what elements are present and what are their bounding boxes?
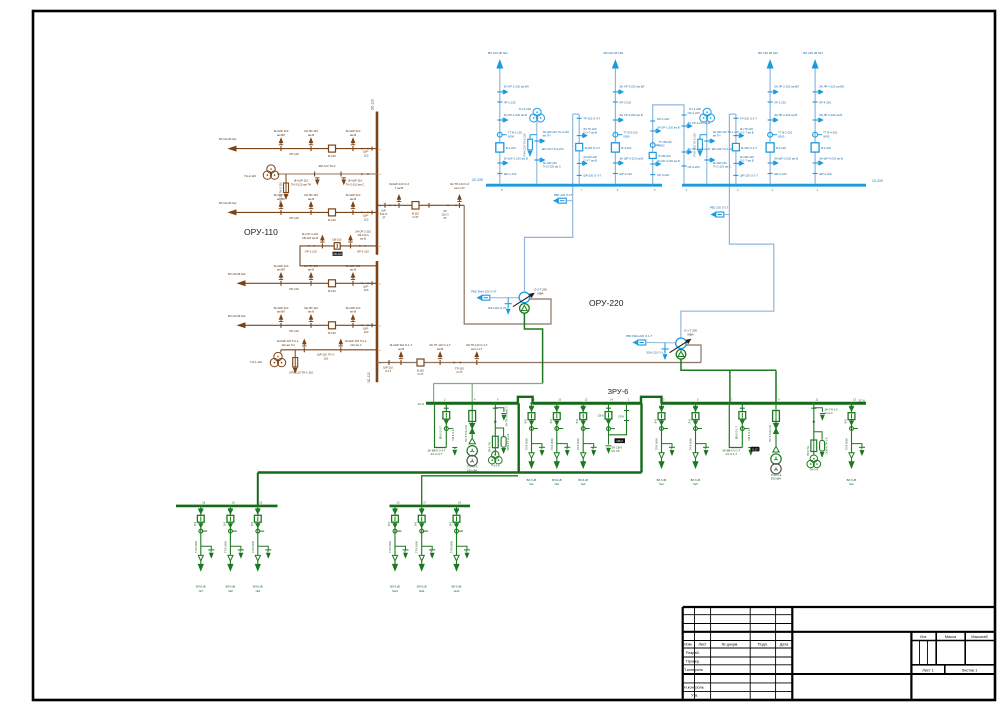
svg-text:В-6: В-6 (250, 521, 254, 526)
breaker В-6 (658, 413, 665, 420)
svg-text:ОР-1-220: ОР-1-220 (657, 117, 670, 121)
wire ТН-1-220 drop to bus (706, 122, 708, 186)
current transformer (740, 427, 744, 431)
disconnector ШР-110 bus side with ground knife (352, 281, 354, 286)
svg-text:ам В: ам В (308, 133, 314, 137)
svg-text:в/л1-С: в/л1-С (825, 411, 833, 415)
svg-text:ам ВЛ: ам ВЛ (277, 268, 285, 272)
svg-text:Масштаб: Масштаб (971, 635, 988, 639)
disconnector upper (554, 405, 559, 407)
label tag СВ-6 (615, 438, 626, 443)
outgoing arrow №7 (200, 561, 202, 565)
ground knife (748, 447, 753, 449)
outgoing arrow №10 (394, 561, 396, 565)
svg-text:ам В: ам В (350, 310, 356, 314)
svg-text:В-1-220: В-1-220 (506, 146, 516, 150)
svg-text:ам В: ам В (398, 347, 404, 351)
feeder №12 bay (456, 506, 458, 556)
svg-text:ОР-3-220: ОР-3-220 (657, 173, 670, 177)
svg-text:ТЛ-6 0000: ТЛ-6 0000 (655, 438, 659, 451)
svg-text:В-6: В-6 (654, 419, 658, 424)
svg-text:В-ОВ-220: В-ОВ-220 (659, 154, 671, 158)
svg-text:ЗН ТР-220: ЗН ТР-220 (740, 127, 754, 131)
svg-text:110: 110 (364, 217, 369, 221)
disconnector with ground knife ам С (704, 159, 709, 161)
disconnector with ground knife ЗН ЛР ам В (813, 119, 818, 121)
wire down to ТСН-1-6 feeder (775, 370, 777, 403)
arrow line end ВЛ 220 кВ №1 (497, 61, 503, 69)
disconnector arrow (444, 420, 448, 424)
svg-text:ЗН ОР-4-220 ам В: ЗН ОР-4-220 ам В (688, 121, 711, 125)
incoming chain ВВ-6 О-1-Т (741, 403, 743, 447)
svg-text:ЗН ЛР-2-220 ам ВЛ: ЗН ЛР-2-220 ам ВЛ (774, 85, 799, 89)
breaker В-6 (392, 515, 399, 522)
svg-text:СВ-110 ам В: СВ-110 ам В (302, 236, 318, 240)
fuse ПР-6 ТН-2-6 (492, 436, 498, 448)
arrow line end ВЛ 220 кВ №2 (767, 61, 773, 69)
ground knife branch right (495, 408, 504, 412)
wire 110kV to АТ-2 (brown) (686, 345, 701, 363)
svg-text:1С-6: 1С-6 (417, 402, 424, 406)
breaker В-220 О-1-Т (732, 143, 739, 150)
distribution bus A (176, 505, 278, 508)
svg-text:ЛР-4-220: ЛР-4-220 (819, 100, 831, 104)
junction dots (359, 245, 361, 247)
feeder №11 bay (421, 506, 423, 556)
current transformer ТТ В-220 (497, 132, 502, 137)
svg-text:ВЛ-6 кВ: ВЛ-6 кВ (253, 584, 263, 588)
delta winding symbol (469, 438, 475, 444)
disconnector with ground knife ЗН ЛР ам ВЛ (813, 91, 818, 93)
wire АТ-1 6kV tail (524, 313, 542, 383)
disconnector ЛР-110 with ground knife (310, 281, 312, 286)
svg-text:110 ам ТН: 110 ам ТН (281, 343, 294, 347)
current transformer ТЛ-6 (660, 427, 664, 431)
disconnector arrow (660, 421, 664, 425)
cable termination (693, 453, 698, 459)
svg-text:ОРУ-110: ОРУ-110 (244, 227, 278, 237)
disconnector upper (419, 508, 424, 510)
svg-text:1С-110: 1С-110 (367, 372, 371, 383)
svg-text:ЛР-110: ЛР-110 (289, 329, 299, 333)
svg-text:ВЛ 220 кВ №3: ВЛ 220 кВ №3 (604, 51, 624, 55)
bus junction (814, 184, 816, 186)
svg-text:0000: 0000 (623, 134, 630, 138)
АТ-2 110kV bay row (377, 362, 701, 364)
junction dots (361, 212, 363, 214)
disconnector upper (228, 508, 233, 510)
disconnector ТР-220 О-1-Т (733, 117, 738, 119)
fuse-reactor ПР-6 ТСН-1-6 (773, 411, 780, 422)
svg-text:Т.контроль: Т.контроль (684, 668, 703, 672)
svg-text:Провер.: Провер. (686, 659, 700, 663)
disconnector with ground knife ЗН ШР ам В (813, 162, 818, 164)
disconnector upper (659, 405, 664, 407)
disconnector ШР-110 with ground knife (280, 323, 282, 328)
ground knife branch (201, 546, 212, 550)
svg-text:ВЛ 220 кВ №4: ВЛ 220 кВ №4 (803, 51, 823, 55)
svg-text:В-6: В-6 (449, 521, 453, 526)
svg-text:ЗН ШР-220: ЗН ШР-220 (740, 155, 754, 159)
disconnector upper (393, 508, 398, 510)
svg-text:В-110: В-110 (328, 218, 336, 222)
ground knife (452, 447, 457, 449)
svg-text:№2: №2 (555, 482, 560, 486)
breaker В-220 (496, 143, 504, 152)
disconnector (444, 407, 449, 409)
svg-text:ЗН ВВ-6 О-1-Т: ЗН ВВ-6 О-1-Т (722, 449, 740, 453)
incoming bay ВВ-6 О-1-Т loop (729, 403, 742, 447)
АТ-2 tap changer arrow (670, 341, 689, 353)
svg-text:В-110: В-110 (417, 369, 424, 373)
svg-text:ПР-6 ТН: ПР-6 ТН (806, 446, 810, 456)
svg-text:Разраб.: Разраб. (686, 651, 700, 655)
disconnector ШР-110 bus side with ground knife (352, 323, 354, 328)
transformer ТСН-2-6 (two windings) (467, 446, 477, 456)
svg-text:ВЛ 110 кВ №1: ВЛ 110 кВ №1 (219, 137, 237, 141)
svg-text:№3: №3 (581, 482, 586, 486)
svg-text:Лист 1: Лист 1 (922, 669, 933, 673)
svg-text:ОР-1-110: ОР-1-110 (305, 249, 317, 253)
disconnector with ground knife ЗН ЛР ам В (613, 119, 618, 121)
disconnector arrow (530, 421, 534, 425)
breaker В-6 (848, 413, 855, 420)
feeder №6 bay (851, 403, 853, 453)
svg-text:№5: №5 (693, 482, 698, 486)
svg-text:ШР-: ШР- (381, 209, 386, 213)
svg-text:№12: №12 (454, 589, 460, 593)
breaker В-6 (227, 515, 234, 522)
svg-text:Листов 1: Листов 1 (962, 669, 978, 673)
svg-text:2х240: 2х240 (465, 549, 469, 557)
svg-text:ЗН ВВ-6 О-3-Т: ЗН ВВ-6 О-3-Т (427, 449, 445, 453)
feeder №1 bay (531, 403, 533, 453)
arrow line end ВЛ 220 кВ №4 (812, 61, 818, 69)
breaker В-6 (418, 515, 425, 522)
svg-text:Изм.: Изм. (684, 643, 692, 647)
svg-text:№11: №11 (419, 589, 425, 593)
arrow line end ВЛ-110 кВ №4 (238, 323, 245, 328)
outgoing arrow №1 (531, 458, 533, 462)
disconnector ЛР-220 (768, 101, 773, 103)
svg-text:ам В: ам В (350, 133, 356, 137)
outgoing arrow №8 (229, 561, 231, 565)
disconnector (606, 407, 611, 409)
svg-text:Утв.: Утв. (691, 694, 698, 698)
svg-text:ВЛ 110 кВ №4: ВЛ 110 кВ №4 (228, 314, 246, 318)
svg-text:110: 110 (324, 356, 329, 360)
svg-text:ЗОН-220 О-3Т: ЗОН-220 О-3Т (488, 306, 507, 310)
current transformer ТЛ-6 (199, 529, 203, 533)
svg-text:СВ-6: СВ-6 (617, 439, 624, 443)
svg-text:ШР-3-220: ШР-3-220 (619, 172, 632, 176)
svg-text:ам О-1-Т: ам О-1-Т (471, 347, 483, 351)
svg-text:ТН-1-220 ам С: ТН-1-220 ам С (713, 164, 731, 168)
grounding ЗОН-220 О-1-Т (664, 343, 666, 349)
bus 1С-220 (right section) (682, 184, 866, 187)
current transformer ТТ В-220 (768, 132, 773, 137)
svg-text:ТР-220 О-3-Т: ТР-220 О-3-Т (583, 117, 601, 121)
svg-text:В-6: В-6 (524, 419, 528, 424)
ground knife СВ-6 (608, 435, 610, 445)
АТ-1 110kV bay row (377, 204, 464, 206)
wire link down to ТСН-2-6 feeder (471, 384, 473, 404)
outgoing arrow №3 (582, 458, 584, 462)
disconnector arrow (420, 524, 424, 528)
breaker В-110 (329, 322, 336, 329)
svg-text:110: 110 (364, 330, 369, 334)
incoming bay ВВ-6 О-3-Т loop (435, 403, 447, 447)
svg-text:ПР-6 ТСН-1-6: ПР-6 ТСН-1-6 (768, 424, 772, 441)
svg-text:ВЛ-6 кВ: ВЛ-6 кВ (657, 478, 667, 482)
svg-text:РВС 80кА-220 О-1-Т: РВС 80кА-220 О-1-Т (626, 334, 653, 338)
bus junction dots (652, 184, 654, 186)
current transformer ТЛ-6 (555, 427, 559, 431)
bus junction (614, 184, 616, 186)
disconnector arrow (694, 421, 698, 425)
current transformer ТЛ-6 (256, 529, 260, 533)
svg-text:ЗН ОР-2-220 ам В: ЗН ОР-2-220 ам В (688, 147, 711, 151)
svg-text:Дата: Дата (780, 643, 789, 647)
arrow line end ВЛ-110 кВ №3 (238, 281, 245, 286)
bus sectionalizer СВ-110 loop (300, 246, 377, 266)
breaker В-220 (811, 143, 819, 152)
svg-text:ТЛ-6 0000: ТЛ-6 0000 (251, 540, 255, 553)
disconnector СР-6 upper (624, 410, 629, 412)
disconnector with ground knife ЗН ЛР ам В (497, 119, 502, 121)
disconnector arrow (555, 421, 559, 425)
disconnector ЛР-220 (813, 101, 818, 103)
disconnector with ground knife ЗН ЛР ам ВЛ (497, 91, 502, 93)
delta winding symbol (773, 446, 779, 452)
svg-text:ТН-1-110: ТН-1-110 (250, 360, 262, 364)
disconnector arrow (850, 421, 854, 425)
cable termination (198, 555, 203, 561)
cable termination (228, 555, 233, 561)
transformer ТСН-1-6 (two windings) (771, 454, 781, 464)
junction (813, 421, 815, 423)
breaker В-6 (254, 515, 261, 522)
svg-text:В-3-220: В-3-220 (621, 146, 631, 150)
svg-text:ВЛ-6 кВ: ВЛ-6 кВ (452, 584, 462, 588)
breaker СВ-6 (605, 412, 612, 419)
svg-text:ВЛ-6 кВ: ВЛ-6 кВ (196, 584, 206, 588)
disconnector ШР-220 О-3-Т (577, 174, 582, 176)
disconnector ШР-110 with ground knife (280, 146, 282, 151)
current transformer ТТ В-220 (613, 132, 618, 137)
disconnector with ground knife ЗН ЛР ам ВЛ (768, 91, 773, 93)
АТ-1 tap changer arrow (513, 295, 532, 307)
svg-text:Лит.: Лит. (920, 635, 927, 639)
svg-text:ЗН ТН-1-6: ЗН ТН-1-6 (825, 408, 838, 412)
breaker В-6 (197, 515, 204, 522)
ground knife ЗН ОР-3-220 (650, 163, 655, 165)
surge arrester РВС-220 О-1Т on drop (712, 212, 716, 216)
svg-text:в/1 СР: в/1 СР (612, 449, 620, 453)
feeder №5 bay (695, 403, 697, 453)
ground knife ЗН ШР-220 О-1-Т (733, 162, 738, 164)
current transformer ТЛ-6 (694, 427, 698, 431)
transformer ТН-2-110 (three-phase cluster) (267, 165, 275, 173)
disconnector ШР-110 О-1Т (388, 360, 390, 365)
svg-text:№6: №6 (849, 482, 854, 486)
line ВЛ-110 кВ №3 feeder (238, 282, 377, 284)
svg-text:0000: 0000 (778, 134, 785, 138)
svg-text:ТЛ-6 0000: ТЛ-6 0000 (689, 438, 693, 451)
disconnector ШР-110 bus side with ground knife (352, 146, 354, 151)
svg-text:ТН-2-110: ТН-2-110 (244, 174, 256, 178)
bus 2С-110 (110kV upper section) (376, 112, 379, 255)
svg-text:В-6: В-6 (549, 419, 553, 424)
svg-text:СВ-110: СВ-110 (333, 253, 342, 256)
svg-text:ТЛ-6 0000: ТЛ-6 0000 (845, 438, 849, 451)
svg-text:ТМ-6 О-1-Т: ТМ-6 О-1-Т (747, 427, 751, 441)
disconnector ШР-220 (497, 173, 502, 175)
svg-text:РВС-220 О-3Т: РВС-220 О-3Т (554, 193, 573, 197)
svg-text:О-1Т: О-1Т (752, 449, 758, 452)
ground knife branch (852, 444, 863, 448)
wire drop to distribution bus A (257, 473, 259, 506)
svg-text:ЗН ЛР-4-220 ам В: ЗН ЛР-4-220 ам В (819, 113, 842, 117)
branch to arrester ОПН-6 (495, 428, 503, 436)
svg-text:ШР-220 ТН-1-220: ШР-220 ТН-1-220 (712, 147, 734, 151)
svg-text:2х240: 2х240 (565, 446, 569, 454)
disconnector ОР-4-220 (682, 114, 687, 116)
svg-text:110 О-: 110 О- (380, 212, 388, 216)
disconnector (811, 407, 816, 409)
svg-text:О-1Т: О-1Т (385, 369, 391, 373)
ground knife ЗН ОР-2-220 (682, 151, 687, 153)
junction dots (361, 324, 363, 326)
svg-text:ВВ-6 О-3-Т: ВВ-6 О-3-Т (438, 426, 442, 440)
svg-text:ВЛ-6 кВ: ВЛ-6 кВ (578, 478, 588, 482)
svg-text:ам В: ам В (308, 197, 314, 201)
svg-text:ЗН ШР-3-220 ам В: ЗН ШР-3-220 ам В (619, 157, 643, 161)
svg-text:ВЛ-6 кВ: ВЛ-6 кВ (552, 478, 562, 482)
junction dots (361, 148, 363, 150)
svg-text:3Т: 3Т (382, 215, 385, 219)
svg-text:ЗН ЛР-3-220 ам В: ЗН ЛР-3-220 ам В (619, 113, 642, 117)
feeder №7 bay (200, 506, 202, 556)
disconnector ШР-110 with ground knife (280, 281, 282, 286)
svg-text:Т ам В: Т ам В (395, 186, 404, 190)
svg-text:ЗН ТР-220: ЗН ТР-220 (583, 127, 597, 131)
wire 110kV to АТ-1 (brown loop) (464, 205, 551, 324)
disconnector ШР-110 bus side with ground knife (352, 210, 354, 215)
disconnector ШР-220 ТН-1-220 with ground knife (704, 140, 709, 142)
svg-text:ЛР-110: ЛР-110 (289, 152, 299, 156)
arrow line end ВЛ-110 кВ №2 (229, 210, 236, 215)
fuse ПР-6 ТН-1-6 (811, 440, 817, 452)
svg-text:ЗОН-220 О-1-Т: ЗОН-220 О-1-Т (646, 351, 666, 355)
disconnector arrow (581, 421, 585, 425)
breaker ВВ-6 О-3-Т (443, 412, 450, 419)
junction (494, 421, 496, 423)
wire 6kV trunk horizontal (258, 471, 642, 473)
svg-text:ам В: ам В (350, 268, 356, 272)
disconnector arrow (199, 524, 203, 528)
disconnector ОР-1-220 (650, 120, 655, 122)
cable termination (392, 555, 397, 561)
disconnector upper (454, 508, 459, 510)
breaker В-ОВ-220 (649, 152, 656, 158)
svg-text:0000: 0000 (508, 134, 515, 138)
svg-text:ОР-2-220: ОР-2-220 (688, 165, 701, 169)
wire 6kV trunk down from bus (518, 403, 520, 472)
disconnector ОР-2-220 (682, 165, 687, 167)
surge arrester РВС-220 О-3Т on drop (554, 199, 558, 203)
svg-text:В-4-220: В-4-220 (821, 146, 831, 150)
ground knife branch (422, 546, 433, 550)
disconnector with ground knife ЗН ШР ам В (497, 162, 502, 164)
svg-text:В-6: В-6 (414, 521, 418, 526)
disconnector with ground knife ЗН ЛР ам В (768, 119, 773, 121)
cable termination (849, 453, 854, 459)
svg-text:ЗН ШР-2-220 ам В: ЗН ШР-2-220 ам В (774, 157, 798, 161)
wire ТН-2-220 drop to bus (536, 122, 538, 186)
svg-text:ШР-220 О-1-Т: ШР-220 О-1-Т (740, 174, 758, 178)
svg-text:ЗН ЛР-1-220 ам ВЛ: ЗН ЛР-1-220 ам ВЛ (504, 85, 529, 89)
title block (основная надпись) (683, 606, 995, 608)
breaker В-110 (329, 209, 336, 216)
line ВЛ-110 кВ №2 feeder (229, 211, 377, 213)
current transformer ТЛ-6 (581, 427, 585, 431)
svg-text:ВЛ-6 кВ: ВЛ-6 кВ (417, 584, 427, 588)
cable termination (581, 453, 586, 459)
disconnector ОР-1-110 with ground knife (321, 243, 323, 248)
svg-text:630 кВА: 630 кВА (467, 468, 477, 472)
outgoing arrow №4 (661, 458, 663, 462)
svg-text:ТН-2-6: ТН-2-6 (491, 464, 500, 468)
svg-text:ШР-220 ТН-2-220: ШР-220 ТН-2-220 (542, 147, 564, 151)
bus junction (499, 184, 501, 186)
ground knife ЗН ШР-220 О-3-Т (577, 162, 582, 164)
ground knife branch (457, 546, 468, 550)
fuse-reactor ПР-6 ТСН-2-6 (469, 411, 476, 422)
ground knife branch (258, 546, 269, 550)
svg-text:0000: 0000 (659, 143, 665, 147)
svg-text:ТЛ-6 0000: ТЛ-6 0000 (194, 540, 198, 553)
svg-text:110: 110 (364, 288, 369, 292)
wire trunk up to bus section 2 (640, 403, 642, 472)
disconnector arrow (256, 524, 260, 528)
svg-text:ТН-2-220: ТН-2-220 (519, 107, 532, 111)
svg-text:В-6: В-6 (222, 521, 226, 526)
svg-text:ВЛ-6 кВ: ВЛ-6 кВ (847, 478, 857, 482)
svg-text:ам ТН: ам ТН (543, 133, 551, 137)
svg-text:в/1 О-3-Т: в/1 О-3-Т (431, 452, 443, 456)
svg-text:ТЛ-6 0000: ТЛ-6 0000 (550, 438, 554, 451)
disconnector (740, 407, 745, 409)
breaker В-6 (580, 413, 587, 420)
ground knife ЗН ТР-220 О-3-Т (577, 135, 582, 137)
svg-text:РОН-220 ТН-1-220: РОН-220 ТН-1-220 (692, 133, 696, 157)
cable termination (454, 555, 459, 561)
disconnector ШР-220 О-1-Т (733, 174, 738, 176)
svg-text:ам ВЛ: ам ВЛ (277, 310, 285, 314)
disconnector ОР-3-220 (650, 174, 655, 176)
svg-text:3Т: 3Т (443, 216, 446, 220)
ground knife branch (532, 444, 543, 448)
voltage transformer feeder ТН-2-6 (494, 403, 496, 455)
svg-text:ам В: ам В (437, 347, 443, 351)
svg-text:2С-220: 2С-220 (472, 178, 483, 182)
svg-text:ТН-2-110 ам С: ТН-2-110 ам С (346, 182, 365, 186)
svg-text:№9: №9 (256, 589, 261, 593)
wire link down to bus left end (433, 384, 435, 404)
svg-text:№10: №10 (392, 589, 398, 593)
svg-text:ВЛ 220 кВ №1: ВЛ 220 кВ №1 (488, 51, 508, 55)
